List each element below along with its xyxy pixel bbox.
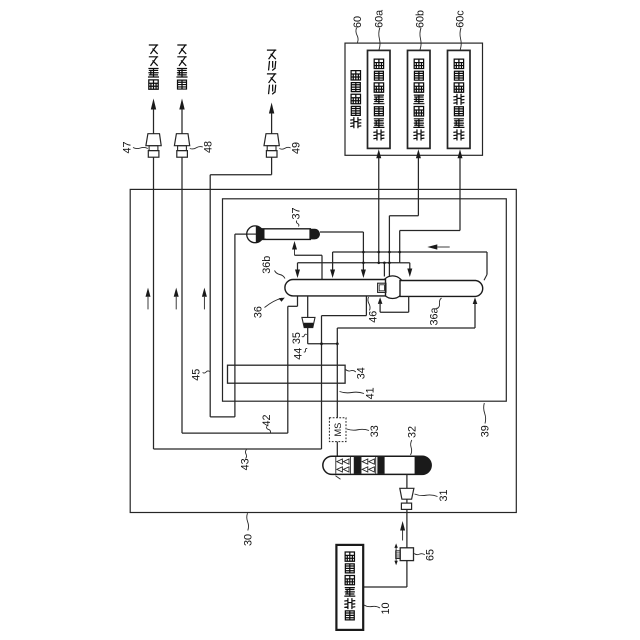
wire valve 31 down to blower 65 <box>406 509 408 547</box>
riser 60b drop to ball <box>388 216 390 277</box>
wire 36a bottom drop <box>474 304 476 328</box>
svg-text:30: 30 <box>243 534 255 546</box>
riser tank 60c upper <box>459 158 461 231</box>
wire oxygen line above valve 47 <box>153 109 155 134</box>
text kuki-reikyaku-sochi (air cooling unit) <box>345 552 355 620</box>
flow arrow up <box>146 288 151 297</box>
junction <box>377 262 380 265</box>
leader 60a <box>379 28 380 50</box>
svg-text:43: 43 <box>239 458 251 470</box>
wire 42 jog <box>288 305 298 307</box>
wire column 37 feed rail <box>295 254 323 256</box>
junction <box>388 251 391 254</box>
svg-text:37: 37 <box>291 207 303 219</box>
wire U-pipe right leg <box>408 296 410 312</box>
blower 65 body <box>400 548 413 561</box>
arrow into tank 60c <box>458 149 463 158</box>
column 37 crude argon column <box>247 226 321 243</box>
tick below vessel 32 <box>336 476 341 479</box>
wire diagonal into 36a <box>484 275 487 281</box>
wire from 36b to funnel 35 <box>307 296 309 318</box>
svg-text:36b: 36b <box>261 256 273 274</box>
wire feed rail 44 <box>308 343 338 345</box>
flow arrow up <box>174 288 179 297</box>
wire feed into column 37 left bulb <box>235 233 256 235</box>
blower 65 louver <box>396 551 401 559</box>
wire drop to vaporizer ball <box>383 263 385 277</box>
leader 43 <box>245 450 246 459</box>
label nitrogen gas <box>177 45 187 89</box>
arrow into tank 60b <box>416 149 421 158</box>
wire nitrogen port from column 36b <box>297 296 299 306</box>
leader 49 <box>279 147 290 149</box>
wire 42 right leg up <box>287 306 289 433</box>
leader 36 <box>265 298 283 307</box>
adsorbent symbol <box>343 467 349 472</box>
condenser square 46 <box>378 283 386 292</box>
text ekitai-sanso-choryuso <box>414 59 424 140</box>
wire jog to 36a top <box>400 262 410 264</box>
leader 65 <box>414 554 425 555</box>
wire U-pipe bottom <box>380 311 409 313</box>
wire main feed line down to MS <box>336 344 338 418</box>
vessel 32 partition <box>375 457 377 474</box>
wire argon from valve 49 down <box>271 157 273 175</box>
junction <box>362 262 365 265</box>
wire corner to 36a right top <box>486 252 488 275</box>
svg-text:31: 31 <box>438 489 450 501</box>
valve 31 body <box>401 503 411 509</box>
arrow into tank 60a <box>376 149 381 158</box>
junction <box>320 342 323 345</box>
wire 42 hairpin bottom <box>182 432 288 434</box>
vessel 32 black end cap <box>415 456 432 474</box>
adsorbent symbol <box>337 467 343 472</box>
wire oxygen takeoff rail <box>322 315 367 317</box>
svg-text:60: 60 <box>352 16 364 28</box>
box 60 refrigerant storage unit <box>345 43 483 155</box>
svg-text:60b: 60b <box>415 10 427 28</box>
leader 48 <box>190 147 203 149</box>
adsorbent symbol <box>362 459 368 464</box>
arrow argon gas out <box>269 103 274 114</box>
vessel 32 black band <box>354 457 361 474</box>
label oxygen gas <box>149 45 159 89</box>
rail reflux lower <box>298 262 400 264</box>
wire drop to 36b left <box>297 263 299 270</box>
junction <box>336 342 339 345</box>
svg-text:34: 34 <box>355 367 367 379</box>
arrow into column 36b from 37 <box>361 270 366 279</box>
adsorbent symbol <box>369 459 375 464</box>
arrow into column 36b <box>330 270 335 279</box>
text reibai-choryuso (refrigerant storage tank) <box>351 71 361 128</box>
adsorbent symbol <box>362 467 368 472</box>
wire to air cooling unit 10 <box>363 586 407 588</box>
wire into column 37 <box>294 250 296 256</box>
junction <box>398 251 401 254</box>
riser 60c drop <box>399 231 401 263</box>
leader 10 <box>364 605 380 608</box>
leader 34 <box>346 370 356 373</box>
svg-text:41: 41 <box>364 387 376 399</box>
riser tank 60b upper <box>417 158 419 216</box>
heat exchanger 34 <box>228 365 346 383</box>
funnel 35 expansion device <box>302 317 315 327</box>
blower 65 adjust arrow <box>395 546 397 563</box>
junction <box>388 262 391 265</box>
arrow into column 37 <box>292 241 297 250</box>
wire argon line above valve 49 <box>271 113 273 134</box>
svg-text:48: 48 <box>203 141 215 153</box>
svg-text:MS: MS <box>333 423 343 437</box>
leader 36a <box>438 298 442 309</box>
svg-text:47: 47 <box>122 141 134 153</box>
leader 45 <box>203 371 210 373</box>
text ekitai-kuki-choryuso <box>454 59 464 140</box>
leader 31 <box>415 494 438 497</box>
wire drop to feed junction <box>336 328 338 344</box>
leader 42 <box>266 426 270 432</box>
vessel 32 partition <box>349 457 351 474</box>
valve 47 oxygen product valve <box>146 134 161 146</box>
leader 35 <box>302 334 307 337</box>
vessel 32 black band <box>378 457 385 474</box>
wire 43 oxygen line down <box>153 157 155 449</box>
wire 45 argon left leg <box>209 175 211 417</box>
leader 33 <box>347 429 369 431</box>
arrow into 36b bottom <box>378 297 383 304</box>
column 36a high pressure column <box>400 281 483 297</box>
riser tank 60a liquid nitrogen <box>378 158 380 263</box>
wire MS to adsorber vessel 32 <box>336 442 338 457</box>
box 60b liquid-oxygen storage tank <box>408 50 431 148</box>
leader 41 <box>340 392 365 394</box>
arrow into 36a bottom <box>473 297 478 304</box>
box 30 cold-box enclosure <box>130 189 516 512</box>
valve 49 argon product valve <box>264 134 279 146</box>
leader 60c <box>460 28 461 50</box>
adsorbent symbol <box>337 459 343 464</box>
svg-text:44: 44 <box>293 348 305 360</box>
svg-text:32: 32 <box>407 426 419 438</box>
wire 43 hairpin bottom <box>154 448 322 450</box>
leader 32 <box>411 440 412 455</box>
arrow oxygen gas out <box>151 99 156 110</box>
adsorbent symbol <box>343 459 349 464</box>
rail reflux upper <box>333 251 487 253</box>
leader 60b <box>420 28 421 50</box>
wire column 37 return drop <box>362 232 364 270</box>
leader 39 <box>484 403 486 424</box>
riser 60b jog <box>389 215 418 217</box>
condenser square 46 inner <box>379 285 384 291</box>
svg-text:60c: 60c <box>455 10 467 28</box>
svg-text:42: 42 <box>261 414 273 426</box>
wire drop <box>409 263 411 269</box>
svg-text:65: 65 <box>425 549 437 561</box>
valve 48 nitrogen product valve <box>174 134 189 146</box>
svg-text:36a: 36a <box>429 307 441 325</box>
svg-text:33: 33 <box>369 425 381 437</box>
leader 30 <box>247 513 249 530</box>
junction <box>377 251 380 254</box>
vessel 32 partition <box>360 457 362 474</box>
wire vessel 32 to valve 31 <box>406 474 408 488</box>
arrow nitrogen gas out <box>179 99 184 110</box>
wire rail from 36a to feed junction <box>337 327 475 329</box>
wire funnel outlet <box>307 328 309 344</box>
svg-text:49: 49 <box>291 142 303 154</box>
leader 60 <box>356 28 358 43</box>
flow arrow up to valve 31 <box>400 521 405 531</box>
wire drop to 36b <box>332 252 334 270</box>
svg-text:45: 45 <box>190 369 202 381</box>
valve 31 trapezoid <box>400 488 414 499</box>
wire argon jog <box>210 174 271 176</box>
wire from column 36b top <box>321 255 323 279</box>
box 39 inner enclosure <box>223 199 507 401</box>
text ekitai-chisso-choryuso <box>374 59 384 140</box>
wire 45 right leg to column 37 <box>234 234 236 417</box>
leader 46 <box>368 297 370 311</box>
wire blower to cooler line <box>406 561 408 587</box>
wire oxygen port from column 36b <box>365 296 367 316</box>
svg-text:10: 10 <box>380 602 392 614</box>
label argon <box>268 50 276 94</box>
wire 43 right leg up <box>321 316 323 449</box>
vessel 32 partition <box>335 457 337 474</box>
arrow into column 36a top <box>407 269 412 278</box>
leader 37 <box>296 221 299 227</box>
svg-text:35: 35 <box>291 332 303 344</box>
vaporizer ball between columns <box>381 276 404 299</box>
leader 44 <box>304 348 307 352</box>
wire nitrogen line above valve 48 <box>181 109 183 134</box>
junction <box>362 251 365 254</box>
box 60a liquid-nitrogen storage tank <box>368 50 391 148</box>
wire valve 31 neck <box>406 499 408 503</box>
leader 36b <box>275 271 286 279</box>
junction <box>383 262 386 265</box>
arrow into column 36b left <box>295 270 300 279</box>
svg-text:36: 36 <box>252 306 264 318</box>
svg-text:46: 46 <box>368 311 380 323</box>
wire 42 nitrogen line down <box>181 157 183 433</box>
riser 60c jog <box>400 230 460 232</box>
adsorbent symbol <box>369 467 375 472</box>
flow arrow left <box>427 244 437 249</box>
svg-text:60a: 60a <box>373 10 385 28</box>
leader 47 <box>133 147 148 148</box>
column 36b low pressure column <box>285 280 386 296</box>
wire U-pipe left leg <box>379 304 381 312</box>
box 60c liquid-air storage tank <box>448 50 471 148</box>
molecular sieve box 33 <box>329 418 346 442</box>
box 10 air cooling unit <box>336 545 363 630</box>
wire column 37 return rail <box>320 231 363 233</box>
flow arrow up <box>202 288 207 297</box>
svg-text:39: 39 <box>479 425 491 437</box>
wire 45 hairpin bottom <box>210 416 235 418</box>
adsorber vessel 32 <box>323 456 431 474</box>
